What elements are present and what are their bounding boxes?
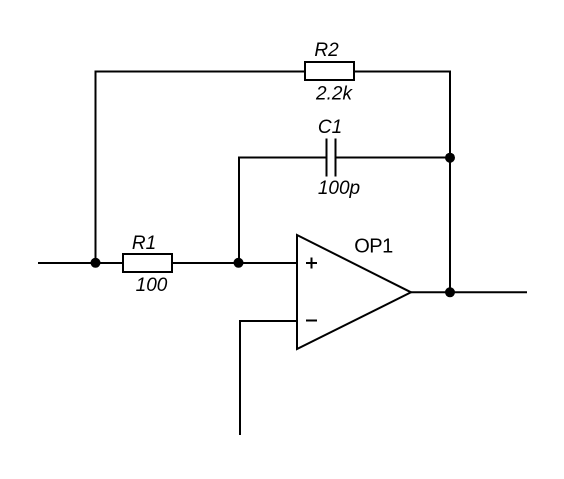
node junction C feedback top xyxy=(445,153,455,163)
node junction B noninverting xyxy=(234,258,244,268)
wire output xyxy=(411,291,527,293)
wire C1 corner vertical xyxy=(238,157,240,264)
node junction D output xyxy=(445,287,455,297)
wire junction to noninverting input xyxy=(238,262,297,264)
wire top horizontal to R2 xyxy=(95,71,307,73)
wire C1 horizontal right xyxy=(335,157,450,159)
svg-text:2.2k: 2.2k xyxy=(315,84,353,105)
node junction A input xyxy=(91,258,101,268)
wire right vertical xyxy=(449,71,451,293)
svg-text:R2: R2 xyxy=(314,40,339,61)
capacitor C1 xyxy=(327,139,336,177)
op-amp noninverting input plus marker xyxy=(306,258,317,269)
wire inverting input vertical down xyxy=(239,320,241,435)
wire R1 right to junction xyxy=(171,262,240,264)
wire input left segment xyxy=(38,262,96,264)
svg-text:100: 100 xyxy=(136,275,168,296)
resistor R1 xyxy=(123,254,172,272)
svg-text:R1: R1 xyxy=(132,233,156,254)
op-amp inverting input minus marker xyxy=(306,320,317,322)
svg-text:100p: 100p xyxy=(318,178,360,199)
resistor R2 xyxy=(305,62,354,80)
wire feedback vertical left xyxy=(95,71,97,264)
svg-text:C1: C1 xyxy=(318,117,342,138)
wire inverting input horizontal xyxy=(240,320,297,322)
wire junction A to R1 xyxy=(95,262,124,264)
svg-text:OP1: OP1 xyxy=(354,235,393,257)
wire R2 to right vertical xyxy=(353,71,451,73)
wire C1 horizontal left xyxy=(238,157,327,159)
op-amp OP1 body triangle xyxy=(297,235,411,349)
